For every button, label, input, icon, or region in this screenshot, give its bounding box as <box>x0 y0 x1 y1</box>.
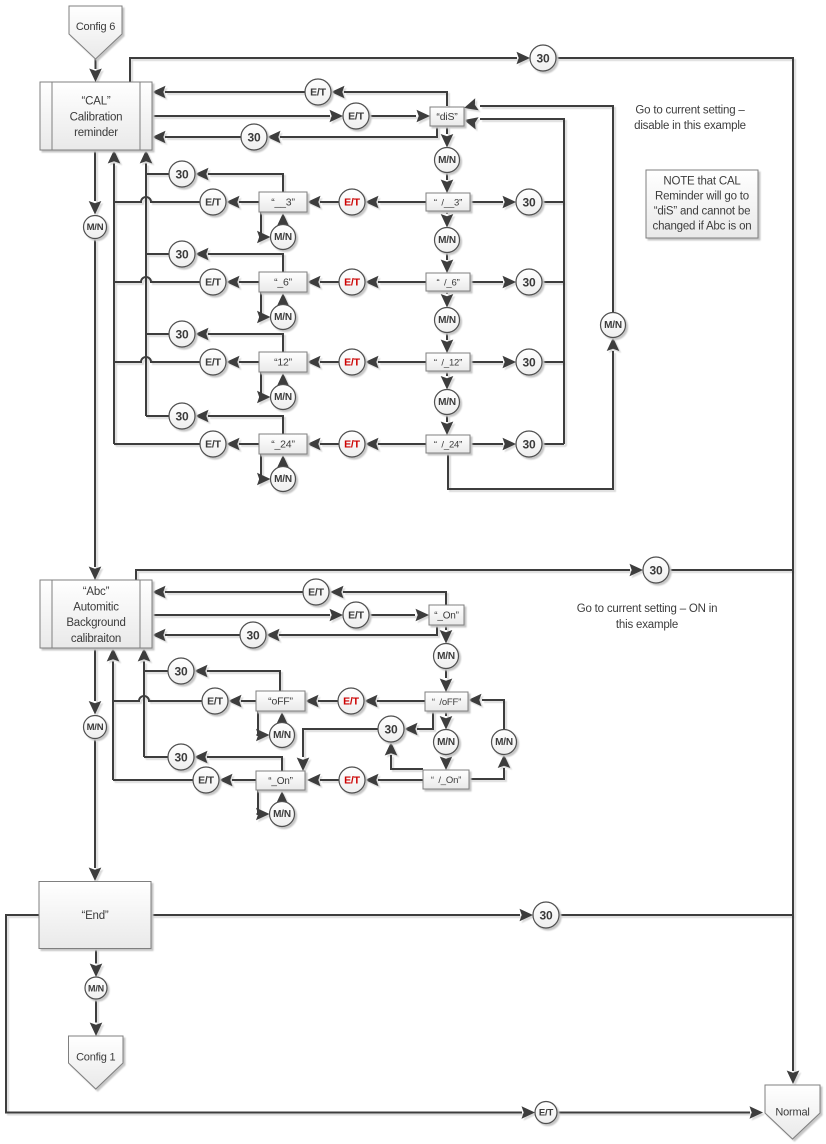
circle M/N below diS <box>435 148 460 173</box>
circle E/T diS to CAL <box>305 79 331 105</box>
svg-text:M/N: M/N <box>273 730 291 741</box>
pentagon Normal <box>765 1085 820 1139</box>
svg-text:Config 1: Config 1 <box>76 1052 115 1064</box>
svg-text:“ /_24”: “ /_24” <box>434 440 462 451</box>
circle E/T On to Abc <box>303 579 329 605</box>
circle middle 30 <box>378 716 404 742</box>
wire right column M/N link 1 <box>441 211 454 273</box>
wire row4 red E/T to box <box>307 438 339 451</box>
svg-text:30: 30 <box>523 196 536 210</box>
circle right 30 row2 <box>516 269 542 295</box>
svg-text:Automitic: Automitic <box>73 602 119 614</box>
circle 30 End timeout <box>533 902 559 928</box>
circle M/N loop row2 <box>271 305 296 330</box>
box “ /_24” row4 <box>426 435 470 453</box>
svg-text:E/T: E/T <box>310 87 327 99</box>
circle M/N right return Abc <box>492 730 517 755</box>
wire row3 30 to right collector <box>542 361 564 363</box>
note text go to current setting disable <box>634 105 746 133</box>
circle 30 diS to CAL <box>241 124 267 150</box>
circle E/T End to Normal <box>535 1102 557 1124</box>
svg-text:Config 6: Config 6 <box>76 21 115 33</box>
svg-text:“ /_12”: “ /_12” <box>434 358 462 369</box>
wire row4 right box to 30 <box>470 438 516 451</box>
wire M/N to first setting box <box>441 173 454 194</box>
svg-text:“ /__3”: “ /__3” <box>434 198 462 209</box>
wire row1 M/N loop <box>257 212 289 243</box>
wire 30 collector vertical into CAL <box>140 150 153 416</box>
svg-text:M/N: M/N <box>274 232 292 243</box>
wire row2 30 to collector <box>146 253 169 255</box>
circle E/T Abc to On <box>343 602 369 628</box>
svg-text:“ /_On”: “ /_On” <box>431 775 461 786</box>
wire M/N down to Abc <box>89 240 102 581</box>
wire diS to M/N <box>441 126 454 148</box>
svg-text:30: 30 <box>248 131 261 145</box>
note box NOTE that CAL <box>646 170 758 238</box>
svg-text:30: 30 <box>650 564 663 578</box>
wire M/N to Config 1 <box>90 999 103 1036</box>
circle red E/T Abc row2 <box>339 767 365 793</box>
wire Abc E/T collector vertical <box>107 648 120 780</box>
circle 30 Abc timeout <box>643 557 669 583</box>
wire CAL top to timeout 30 and right edge down to Normal <box>130 52 799 1084</box>
svg-text:“diS”: “diS” <box>436 111 458 123</box>
svg-text:E/T: E/T <box>344 439 361 451</box>
wire row3 30 to collector <box>146 333 169 335</box>
circle right 30 row4 <box>516 431 542 457</box>
svg-text:“_On”: “_On” <box>268 776 293 787</box>
process box Abc Automitic Background calibraiton <box>40 580 152 648</box>
wire row4 box top to 30 <box>195 410 283 434</box>
box slash On <box>423 770 469 789</box>
circle M/N below End <box>85 977 107 999</box>
wire row1 30 to right collector <box>542 201 564 203</box>
svg-text:disable in this example: disable in this example <box>634 120 746 132</box>
box On state <box>256 771 305 790</box>
svg-text:“__3”: “__3” <box>271 197 295 209</box>
svg-text:M/N: M/N <box>88 984 104 994</box>
circle M/N between oFF and On <box>434 730 459 755</box>
svg-text:“_On”: “_On” <box>434 611 459 622</box>
circle M/N below CAL <box>84 216 107 239</box>
wire row4 30 to right collector <box>542 443 564 445</box>
wire row1 box top to 30 <box>195 168 283 192</box>
wire On state M/N loop <box>256 790 288 820</box>
svg-text:30: 30 <box>523 356 536 370</box>
wire slash On to red E/T <box>365 774 423 787</box>
wire row2 red E/T to box <box>307 276 339 289</box>
svg-text:Go to current setting – ON in: Go to current setting – ON in <box>577 603 718 615</box>
wire right column M/N link 2 <box>441 291 454 353</box>
circle 30 row3 <box>169 321 195 347</box>
box “12” row3 <box>259 352 307 372</box>
circle 30 row4 <box>169 403 195 429</box>
box End <box>39 882 151 949</box>
circle red E/T row2 <box>339 269 365 295</box>
svg-text:M/N: M/N <box>437 651 455 662</box>
wire Config 6 to CAL <box>89 58 102 82</box>
wire row4 box to E/T <box>226 438 259 451</box>
svg-text:this example: this example <box>616 619 678 631</box>
circle red E/T row1 <box>339 189 365 215</box>
circle 30 row2 <box>169 241 195 267</box>
circle red E/T row3 <box>339 349 365 375</box>
circle E/T row4 <box>200 431 226 457</box>
svg-text:reminder: reminder <box>74 127 118 139</box>
wire row2 E/T to collector with hop <box>114 277 200 282</box>
box “ /_12” row3 <box>426 353 470 371</box>
svg-text:30: 30 <box>540 909 553 923</box>
circle M/N right column 3 <box>435 390 460 415</box>
svg-text:E/T: E/T <box>348 610 365 622</box>
circle M/N loop oFF <box>270 723 295 748</box>
svg-text:Calibration: Calibration <box>70 111 123 123</box>
circle 30 Abc row2 <box>168 744 194 770</box>
wire On state E/T to collector <box>113 779 193 781</box>
box On current <box>429 605 464 625</box>
svg-text:E/T: E/T <box>344 357 361 369</box>
wire row2 box top to 30 <box>195 248 283 272</box>
wire slash24 to M/N to diS <box>448 98 619 489</box>
wire row3 right box to 30 <box>470 356 516 369</box>
svg-text:E/T: E/T <box>348 111 365 123</box>
svg-text:“Abc”: “Abc” <box>83 586 110 598</box>
wire E/T collector vertical into CAL <box>108 150 121 444</box>
pentagon Config 1 <box>69 1036 124 1089</box>
circle E/T row1 <box>200 189 226 215</box>
svg-text:30: 30 <box>385 723 398 737</box>
wire row1 right box to red E/T <box>365 196 426 209</box>
svg-text:30: 30 <box>537 52 550 66</box>
svg-text:Go to current setting –: Go to current setting – <box>635 105 745 117</box>
wire red E/T to oFF box <box>305 695 338 708</box>
circle right 30 row3 <box>516 349 542 375</box>
wire On box timeout to 30 back to Abc <box>152 625 437 641</box>
svg-text:E/T: E/T <box>198 775 215 787</box>
wire End down to M/N <box>90 949 103 977</box>
svg-text:“oFF”: “oFF” <box>268 696 293 708</box>
circle M/N far right return <box>601 313 626 338</box>
svg-text:E/T: E/T <box>343 696 360 708</box>
wire End to E/T to Normal <box>6 915 763 1119</box>
svg-text:E/T: E/T <box>344 775 361 787</box>
wire oFF E/T to collector with hop <box>113 696 202 701</box>
wire row1 red E/T to box <box>307 196 339 209</box>
svg-text:changed if Abc is on: changed if Abc is on <box>653 221 752 233</box>
svg-text:E/T: E/T <box>205 277 222 289</box>
wire row3 box to E/T <box>226 356 259 369</box>
svg-text:calibraiton: calibraiton <box>71 633 121 645</box>
wire slash oFF to M/N center <box>440 711 453 730</box>
wire row3 box top to 30 <box>195 328 283 352</box>
wire On box to E/T back to Abc <box>152 586 446 605</box>
box “ /__3” row1 <box>426 193 470 211</box>
box slash oFF <box>425 692 468 711</box>
svg-text:M/N: M/N <box>438 315 456 326</box>
circle E/T row3 <box>200 349 226 375</box>
circle M/N right column 2 <box>435 308 460 333</box>
wire End to 30 to right edge <box>151 909 793 922</box>
svg-text:Reminder will go to: Reminder will go to <box>655 191 749 203</box>
svg-text:“ /_6”: “ /_6” <box>436 278 459 289</box>
circle M/N loop row1 <box>271 225 296 250</box>
circle M/N below Abc <box>84 716 107 739</box>
svg-text:30: 30 <box>176 248 189 262</box>
wire M/N down to End <box>89 740 102 882</box>
svg-text:E/T: E/T <box>344 277 361 289</box>
wire row1 right box to 30 <box>470 196 516 209</box>
wire slash oFF to red E/T <box>364 695 425 708</box>
svg-text:M/N: M/N <box>273 809 291 820</box>
svg-text:30: 30 <box>247 629 260 643</box>
circle E/T Abc row1 <box>202 688 228 714</box>
wire On state top to 30 <box>194 751 282 771</box>
wire red E/T to On state box <box>307 774 339 787</box>
svg-text:M/N: M/N <box>274 312 292 323</box>
box “ /_6” row2 <box>426 273 470 291</box>
wire row3 E/T to collector with hop <box>114 357 200 362</box>
box “__3” row1 <box>259 192 307 212</box>
svg-text:“CAL”: “CAL” <box>81 96 110 108</box>
wire Abc to E/T to On box <box>152 609 429 622</box>
wire row1 E/T to collector with hop <box>114 197 200 202</box>
wire On box to M/N <box>440 625 453 644</box>
wire On state 30 to collector <box>144 756 168 758</box>
wire row1 30 to collector <box>146 173 169 175</box>
wire slash On right loop to M/N to slash oFF <box>468 694 510 779</box>
process box CAL Calibration reminder <box>40 82 152 150</box>
wire On state box to E/T <box>219 774 256 787</box>
circle M/N loop row3 <box>271 385 296 410</box>
box oFF <box>256 691 305 711</box>
svg-text:M/N: M/N <box>274 474 292 485</box>
circle 30 Abc row1 <box>168 658 194 684</box>
wire row3 M/N loop <box>257 372 289 403</box>
svg-text:M/N: M/N <box>87 722 104 733</box>
wire M/N to oFF state <box>440 669 453 693</box>
svg-text:30: 30 <box>523 438 536 452</box>
svg-text:30: 30 <box>176 328 189 342</box>
wire oFF M/N loop <box>256 711 288 741</box>
svg-text:M/N: M/N <box>437 737 455 748</box>
wire row2 box to E/T <box>226 276 259 289</box>
wire row4 E/T to collector <box>114 443 200 445</box>
svg-text:Normal: Normal <box>775 1107 809 1119</box>
svg-text:Background: Background <box>66 617 125 629</box>
wire Abc top to timeout 30 to right edge <box>136 564 793 580</box>
wire slash On to middle 30 <box>385 742 423 769</box>
wire middle 30 to On state box <box>297 729 378 771</box>
circle M/N loop On state <box>270 802 295 827</box>
svg-text:M/N: M/N <box>438 235 456 246</box>
svg-text:“_24”: “_24” <box>271 439 295 451</box>
circle 30 top timeout <box>530 45 556 71</box>
svg-text:M/N: M/N <box>438 155 456 166</box>
wire diS timeout to 30 back to CAL <box>152 126 437 143</box>
wire oFF box to E/T <box>228 695 256 708</box>
wire row2 right box to 30 <box>470 276 516 289</box>
wire oFF 30 to collector <box>144 670 168 672</box>
wire right column M/N link 3 <box>441 371 454 435</box>
wire M/N center to slash On <box>440 755 453 771</box>
wire oFF top to 30 <box>194 665 280 691</box>
wire CAL to E/T to diS <box>152 110 430 123</box>
svg-text:M/N: M/N <box>87 222 104 233</box>
circle 30 row1 <box>169 161 195 187</box>
wire row2 M/N loop <box>257 292 289 323</box>
wire CAL down to M/N <box>89 150 102 215</box>
svg-text:30: 30 <box>175 751 188 765</box>
wire diS to E/T back to CAL <box>152 86 447 106</box>
svg-text:M/N: M/N <box>438 397 456 408</box>
wire row4 30 to collector <box>146 415 169 417</box>
svg-text:30: 30 <box>176 410 189 424</box>
wire row4 M/N loop <box>257 454 289 485</box>
svg-text:30: 30 <box>523 276 536 290</box>
box “_24” row4 <box>259 434 307 454</box>
circle M/N below On <box>434 644 459 669</box>
wire row3 right box to red E/T <box>365 356 426 369</box>
circle E/T CAL to diS <box>343 103 369 129</box>
wire row1 box to E/T <box>226 196 259 209</box>
svg-text:30: 30 <box>176 168 189 182</box>
circle red E/T Abc row1 <box>338 688 364 714</box>
wire slash oFF to middle 30 <box>404 711 433 735</box>
svg-text:M/N: M/N <box>274 392 292 403</box>
pentagon Config 6 <box>69 6 122 59</box>
wire row3 red E/T to box <box>307 356 339 369</box>
svg-text:“End”: “End” <box>81 910 108 922</box>
svg-text:NOTE that CAL: NOTE that CAL <box>663 176 741 188</box>
svg-text:E/T: E/T <box>205 439 222 451</box>
svg-text:E/T: E/T <box>205 197 222 209</box>
circle red E/T row4 <box>339 431 365 457</box>
box diS <box>430 107 464 126</box>
circle M/N right column 1 <box>435 228 460 253</box>
wire Abc 30 collector vertical <box>138 648 151 757</box>
svg-text:M/N: M/N <box>604 320 622 331</box>
svg-text:“diS” and cannot be: “diS” and cannot be <box>654 206 751 218</box>
wire row2 30 to right collector <box>542 281 564 283</box>
circle M/N loop row4 <box>271 467 296 492</box>
circle E/T Abc row2 <box>193 767 219 793</box>
circle 30 On to Abc <box>240 622 266 648</box>
wire right 30 collector to diS <box>464 117 564 444</box>
circle right 30 row1 <box>516 189 542 215</box>
svg-text:E/T: E/T <box>308 587 325 599</box>
svg-text:E/T: E/T <box>539 1108 554 1119</box>
wire row4 right box to red E/T <box>365 438 426 451</box>
wire row2 right box to red E/T <box>365 276 426 289</box>
circle E/T row2 <box>200 269 226 295</box>
wire Abc down to M/N <box>89 648 102 715</box>
svg-text:E/T: E/T <box>207 696 224 708</box>
svg-text:E/T: E/T <box>344 197 361 209</box>
note text go to current setting ON <box>577 603 718 631</box>
svg-text:M/N: M/N <box>495 737 513 748</box>
box “_6” row2 <box>259 272 307 292</box>
svg-text:30: 30 <box>175 665 188 679</box>
svg-text:“_6”: “_6” <box>274 277 293 289</box>
svg-text:E/T: E/T <box>205 357 222 369</box>
svg-text:“12”: “12” <box>274 357 293 369</box>
svg-text:“ /oFF”: “ /oFF” <box>432 697 461 708</box>
